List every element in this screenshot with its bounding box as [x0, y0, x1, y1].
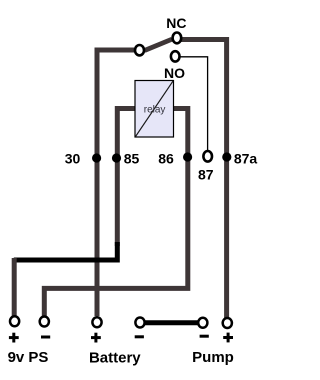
- svg-text:87: 87: [198, 167, 214, 183]
- svg-text:87a: 87a: [234, 151, 258, 167]
- node terminal 85: [112, 153, 121, 162]
- switch lever: [145, 39, 173, 50]
- svg-text:NC: NC: [166, 15, 186, 31]
- NO contact: [171, 51, 180, 61]
- svg-text:86: 86: [158, 151, 174, 167]
- terminal 87 open contact: [203, 151, 212, 162]
- polarity - Battery: [135, 335, 144, 338]
- terminal Pump +: [223, 318, 232, 328]
- terminal Battery +: [92, 317, 101, 327]
- polarity + Pump: [223, 333, 233, 343]
- terminal 9v PS +: [10, 316, 19, 326]
- terminal 9v PS -: [40, 317, 49, 327]
- relay box U1: [135, 81, 174, 138]
- polarity - Pump: [200, 335, 209, 338]
- svg-text:relay: relay: [144, 105, 166, 116]
- svg-text:9v PS: 9v PS: [8, 349, 49, 366]
- node terminal 30: [92, 153, 101, 162]
- svg-text:30: 30: [65, 151, 81, 167]
- wire: NC contact to terminal 87a and Pump +: [181, 40, 227, 319]
- svg-text:85: 85: [124, 151, 140, 167]
- wire: relay coil left to terminal 85: [117, 109, 135, 247]
- wire: thin NO contact to terminal 87: [180, 57, 208, 150]
- switch common contact: [135, 45, 144, 55]
- NC contact: [173, 33, 182, 44]
- terminal Battery -: [135, 318, 144, 328]
- svg-text:Pump: Pump: [192, 349, 234, 366]
- polarity + Battery: [91, 333, 101, 343]
- polarity + 9v PS: [9, 333, 19, 343]
- node terminal 86: [183, 152, 192, 161]
- terminal Pump -: [198, 318, 207, 328]
- wire: Battery - to Pump -: [145, 320, 198, 325]
- svg-text:NO: NO: [164, 65, 185, 81]
- wire: black elbow terminal 85 to 9v PS +: [14, 242, 118, 260]
- node terminal 87a: [222, 152, 231, 161]
- wire: switch common to terminal 30 and Battery +: [97, 50, 134, 316]
- polarity - 9v PS: [41, 336, 50, 339]
- wire: down to 9v PS + terminal: [12, 258, 17, 316]
- svg-text:Battery: Battery: [89, 350, 141, 367]
- wire: relay coil right to terminal 86, down and left to 9v PS -: [44, 109, 188, 317]
